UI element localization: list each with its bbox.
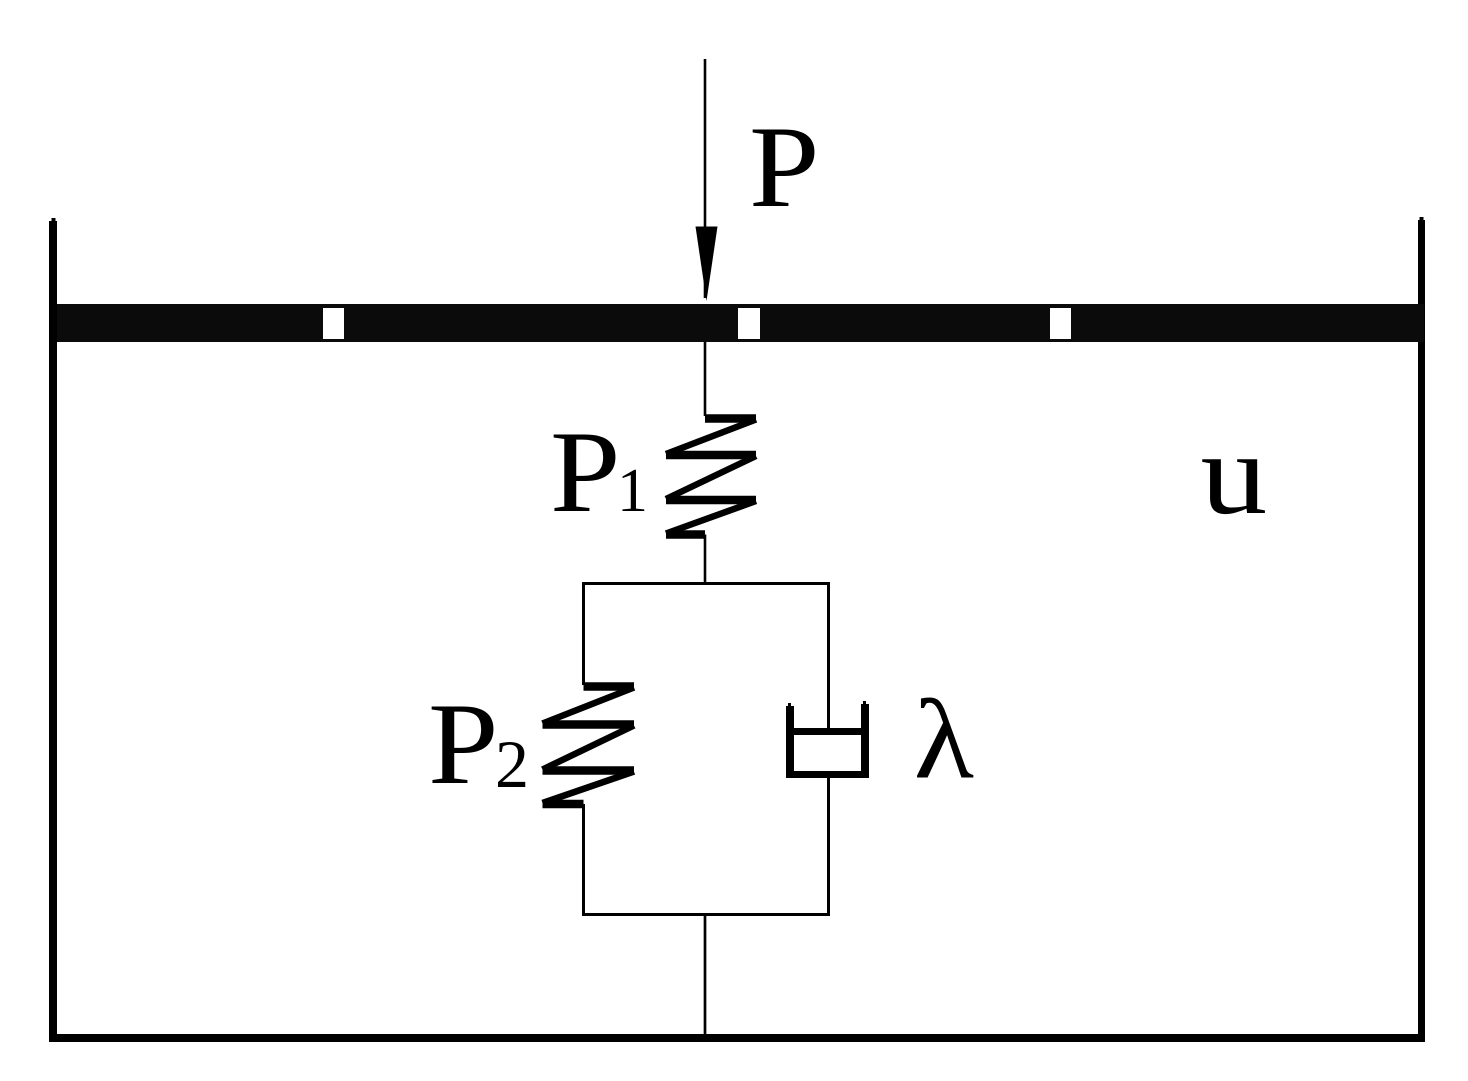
svg-text:P: P [749, 103, 820, 232]
piston plate (loading platen) [57, 304, 1424, 342]
piston hole 2 [738, 308, 760, 339]
piston hole 1 [323, 308, 344, 339]
load arrow line P [704, 59, 707, 298]
container right wall top tick [1420, 217, 1424, 221]
right branch upper wire (dashpot rod) [827, 582, 830, 731]
container right wall [1418, 220, 1425, 1042]
label u (pore water pressure) [1201, 409, 1268, 539]
svg-text:λ: λ [914, 676, 974, 802]
dashpot right wall top tick [863, 701, 866, 705]
wire parallel block to container bottom [704, 915, 707, 1035]
svg-text:P: P [550, 408, 621, 537]
dashpot piston plate [794, 728, 862, 735]
svg-text:u: u [1201, 409, 1268, 539]
spring P2 [543, 687, 635, 805]
dashpot left wall top tick [788, 703, 791, 707]
left branch lower wire [582, 804, 585, 916]
dashpot cylinder right wall [861, 704, 869, 778]
piston hole 3 [1050, 308, 1071, 339]
container left wall [49, 221, 57, 1042]
parallel block top wire [582, 582, 830, 585]
label lambda [914, 676, 974, 802]
wire spring P1 to parallel block [704, 535, 707, 584]
dashpot cylinder left wall [786, 706, 794, 778]
svg-text:2: 2 [495, 726, 529, 802]
spring P1 [666, 419, 756, 535]
svg-text:1: 1 [617, 457, 648, 525]
container left wall top tick [52, 218, 56, 222]
parallel block bottom wire [582, 913, 830, 916]
left branch upper wire [582, 582, 585, 685]
svg-text:P: P [428, 680, 499, 809]
wire piston to spring P1 [704, 342, 707, 416]
container bottom wall [49, 1034, 1425, 1042]
load arrowhead [696, 227, 718, 302]
dashpot cylinder bottom [786, 771, 869, 778]
right branch lower wire [827, 778, 830, 916]
